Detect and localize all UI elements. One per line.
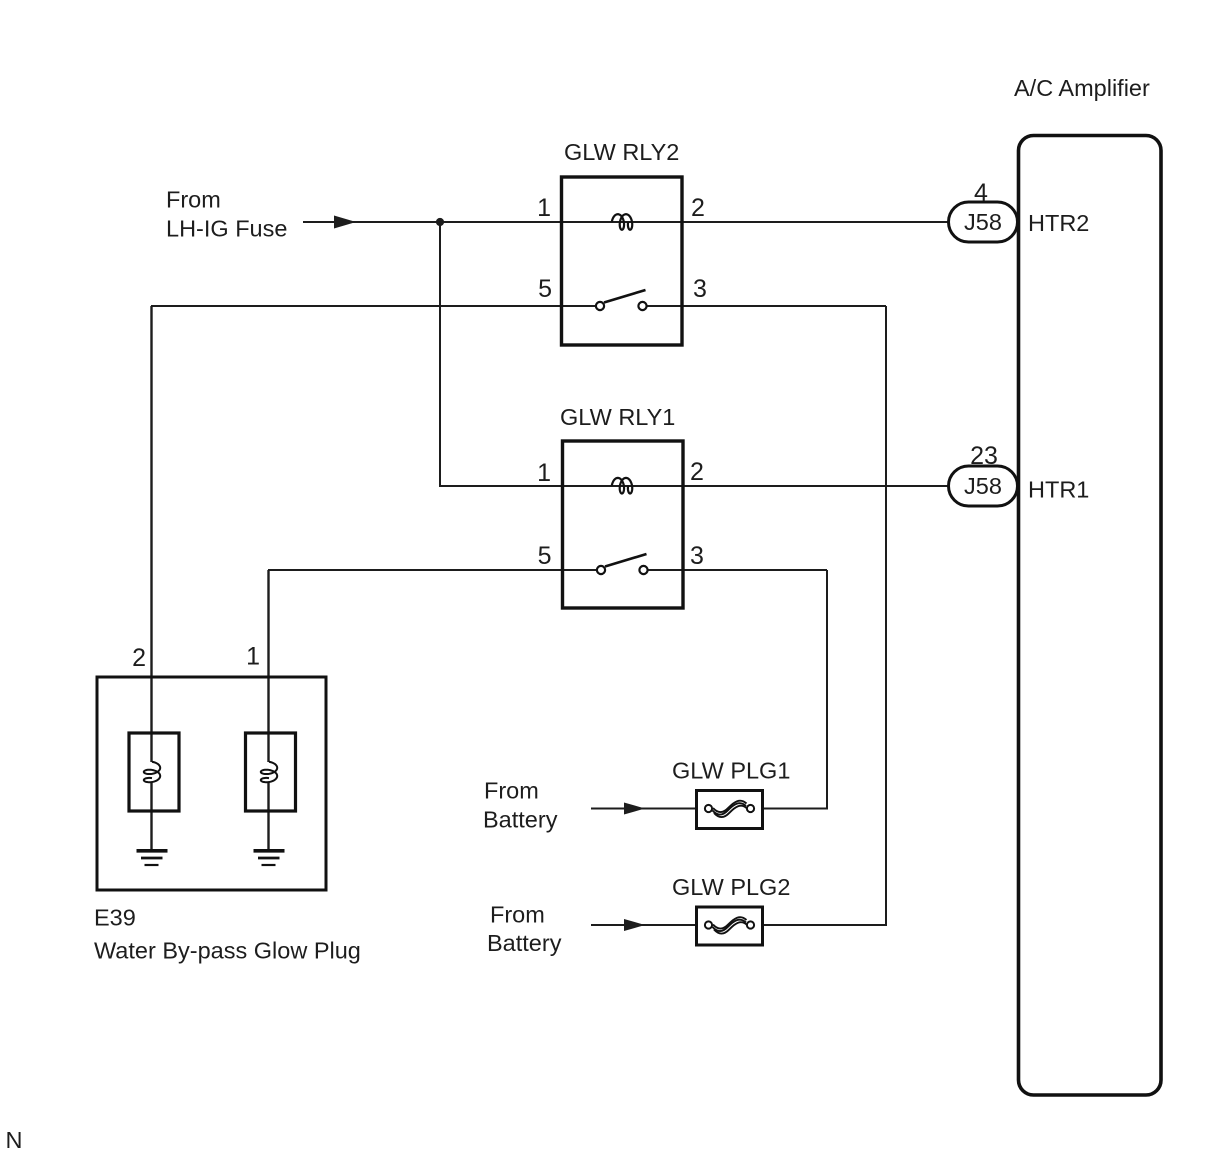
wire GLW RLY1 pin 5 to left <box>268 569 562 571</box>
relay GLW RLY1 switch <box>597 554 648 574</box>
svg-text:2: 2 <box>690 458 704 486</box>
glow plug element 1 box <box>246 733 296 811</box>
svg-text:GLW RLY2: GLW RLY2 <box>564 139 679 165</box>
fuse GLW PLG1 element <box>705 801 754 817</box>
relay GLW RLY2 box <box>562 177 683 345</box>
svg-text:J58: J58 <box>964 473 1002 499</box>
svg-text:J58: J58 <box>964 209 1002 235</box>
arrow from battery 1 <box>624 803 645 815</box>
glow plug element 1 coil <box>261 762 277 782</box>
arrow from LH-IG fuse <box>334 216 356 229</box>
svg-text:A/C Amplifier: A/C Amplifier <box>1014 75 1150 101</box>
svg-text:From: From <box>166 187 221 213</box>
wire from battery to GLW PLG2 <box>591 924 696 926</box>
wire inside GLW RLY1 coil row <box>562 485 683 487</box>
ground for glow plug 1 <box>254 851 285 865</box>
svg-text:GLW PLG2: GLW PLG2 <box>672 874 790 900</box>
fuse GLW PLG2 element <box>705 917 754 933</box>
wire vertical E39 pin 1 <box>267 570 269 762</box>
svg-text:1: 1 <box>246 643 260 671</box>
svg-text:1: 1 <box>537 459 551 487</box>
svg-text:GLW RLY1: GLW RLY1 <box>560 404 675 430</box>
svg-text:2: 2 <box>691 194 705 222</box>
svg-text:LH-IG Fuse: LH-IG Fuse <box>166 216 287 242</box>
svg-text:23: 23 <box>970 442 998 470</box>
wire from LH-IG fuse to GLW RLY2 pin 1 <box>303 221 561 223</box>
svg-text:3: 3 <box>693 275 707 303</box>
wire glow plug 2 to ground <box>150 782 152 849</box>
wire inside GLW RLY1 switch row <box>562 569 598 571</box>
svg-text:E39: E39 <box>94 905 136 931</box>
svg-text:2: 2 <box>132 644 146 672</box>
svg-text:1: 1 <box>537 194 551 222</box>
wire GLW RLY2 pin 3 to right <box>682 305 886 307</box>
svg-text:5: 5 <box>538 542 552 570</box>
A/C amplifier box <box>1019 136 1162 1096</box>
svg-text:3: 3 <box>690 542 704 570</box>
wire GLW PLG2 to GLW RLY2 pin 3 <box>763 306 886 925</box>
relay GLW RLY1 coil <box>612 478 632 494</box>
svg-text:Water By-pass Glow Plug: Water By-pass Glow Plug <box>94 938 361 964</box>
wire GLW RLY1 pin 3 to right <box>683 569 827 571</box>
relay GLW RLY1 box <box>563 441 684 608</box>
svg-text:N: N <box>6 1127 23 1153</box>
wire inside GLW RLY2 coil row <box>561 221 682 223</box>
wire GLW PLG1 to GLW RLY1 pin 3 <box>763 570 827 809</box>
svg-text:GLW PLG1: GLW PLG1 <box>672 758 790 784</box>
wire from battery to GLW PLG1 <box>591 808 696 810</box>
wire inside GLW RLY2 switch row <box>561 305 597 307</box>
svg-text:From: From <box>484 778 539 804</box>
wire vertical E39 pin 2 <box>150 306 152 762</box>
glow plug element 2 box <box>129 733 179 811</box>
fuse GLW PLG2 box <box>697 907 763 945</box>
fuse GLW PLG1 box <box>697 791 763 829</box>
ground for glow plug 2 <box>137 851 168 865</box>
arrow from battery 2 <box>624 919 645 931</box>
node A junction dot <box>436 218 444 226</box>
connector J58 pin 4 oval <box>949 202 1018 242</box>
svg-text:5: 5 <box>538 275 552 303</box>
E39 component box <box>97 677 326 890</box>
connector J58 pin 23 oval <box>949 466 1018 506</box>
svg-text:4: 4 <box>974 179 988 207</box>
wire GLW RLY2 pin 5 to left <box>151 305 562 307</box>
wire glow plug 1 to ground <box>267 782 269 849</box>
glow plug element 2 coil <box>144 762 160 782</box>
wire vertical from node A down to GLW RLY1 pin 1 <box>440 222 562 486</box>
wire GLW RLY2 pin 2 to J58 pin 4 <box>682 221 950 223</box>
relay GLW RLY2 coil <box>612 214 632 230</box>
relay GLW RLY2 switch <box>596 290 647 310</box>
svg-text:Battery: Battery <box>487 930 562 956</box>
wire GLW RLY1 pin 2 to J58 pin 23 <box>683 485 950 487</box>
svg-text:From: From <box>490 902 545 928</box>
svg-text:Battery: Battery <box>483 807 558 833</box>
svg-text:HTR2: HTR2 <box>1028 210 1089 236</box>
svg-text:HTR1: HTR1 <box>1028 477 1089 503</box>
